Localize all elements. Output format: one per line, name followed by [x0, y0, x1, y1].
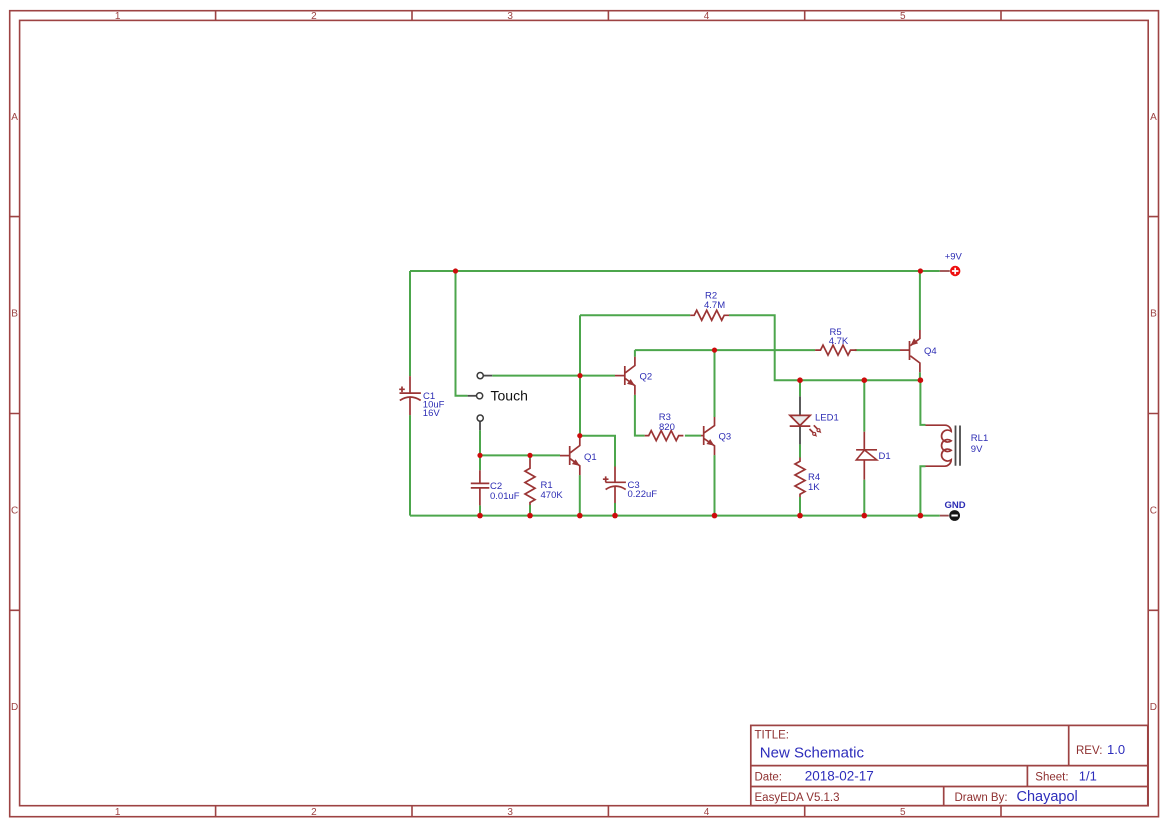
- diode D1: [856, 432, 891, 480]
- svg-text:470K: 470K: [541, 490, 564, 501]
- svg-text:2: 2: [311, 11, 317, 22]
- junction node Q1 base / C2: [477, 453, 482, 458]
- svg-text:1: 1: [115, 11, 121, 22]
- wire R1 stubs: [529, 455, 531, 515]
- resistor R5: [815, 327, 857, 355]
- wire Q4 emitter up: [919, 271, 921, 330]
- junction node ground rail / R4: [797, 513, 803, 519]
- junction node D1 branch: [862, 377, 868, 383]
- wire C2 bottom: [479, 505, 481, 515]
- junction node top rail / touch branch: [453, 268, 458, 273]
- svg-text:Date:: Date:: [755, 772, 783, 784]
- power +9V: [940, 252, 963, 276]
- svg-text:A: A: [11, 112, 18, 123]
- wire LED1 to R4: [799, 444, 801, 457]
- wire Q2 collector up: [634, 350, 636, 357]
- wire Q1 collector node to C3: [580, 436, 615, 467]
- svg-text:D1: D1: [879, 451, 891, 462]
- svg-text:820: 820: [659, 422, 675, 433]
- junction node ground rail / Q1 emitter: [577, 513, 583, 519]
- junction node Q4 collector / relay: [918, 377, 924, 383]
- svg-text:REV:: REV:: [1076, 745, 1102, 757]
- wire Q3 collector up: [714, 350, 716, 417]
- wire left column top: [409, 271, 411, 376]
- wire D1 bottom: [863, 480, 865, 516]
- svg-text:3: 3: [507, 807, 513, 818]
- junction node ground rail / Q3 emitter: [712, 513, 718, 519]
- svg-text:2018-02-17: 2018-02-17: [805, 769, 874, 784]
- junction node Q3 collector / R5 wire: [712, 348, 717, 353]
- svg-text:B: B: [11, 309, 18, 320]
- svg-text:16V: 16V: [423, 408, 441, 419]
- svg-text:4: 4: [704, 11, 710, 22]
- wire Q3 emitter down: [714, 455, 716, 515]
- wire C3 bottom: [614, 503, 616, 516]
- svg-text:TITLE:: TITLE:: [755, 730, 790, 742]
- wire LED1 top: [799, 380, 801, 396]
- wire base node to Q1: [480, 454, 560, 456]
- wire Q2 emitter to R3: [635, 395, 645, 436]
- svg-text:B: B: [1150, 309, 1157, 320]
- wire Q2 collector rail to R5: [635, 349, 815, 351]
- wire relay bottom: [920, 466, 925, 515]
- CIRCUIT: [399, 252, 988, 521]
- svg-text:GND: GND: [945, 500, 966, 511]
- svg-text:4.7M: 4.7M: [704, 300, 725, 311]
- junction node ground rail / C3: [612, 513, 618, 519]
- svg-text:LED1: LED1: [815, 413, 839, 424]
- TITLE BLOCK: [751, 725, 1148, 805]
- svg-text:5: 5: [900, 807, 906, 818]
- svg-text:3: 3: [507, 11, 513, 22]
- svg-text:Q3: Q3: [719, 432, 732, 443]
- svg-text:Touch: Touch: [491, 388, 528, 404]
- resistor R3: [645, 412, 684, 441]
- resistor R2: [690, 291, 729, 321]
- svg-text:C: C: [11, 506, 18, 517]
- wire R3 right: [685, 435, 701, 437]
- wire touch bottom to base node: [479, 430, 481, 470]
- svg-text:Q1: Q1: [584, 452, 597, 463]
- svg-text:RL1: RL1: [971, 433, 988, 444]
- svg-text:Drawn By:: Drawn By:: [955, 792, 1008, 804]
- wire +9V branch: [456, 271, 468, 396]
- resistor R4: [795, 458, 820, 498]
- junction node top rail / Q4 emitter: [918, 268, 923, 273]
- junction node touch wire / R2 branch: [577, 373, 582, 378]
- svg-text:EasyEDA V5.1.3: EasyEDA V5.1.3: [755, 792, 840, 804]
- svg-text:5: 5: [900, 11, 906, 22]
- svg-text:1.0: 1.0: [1107, 742, 1125, 757]
- wire Q4 collector down: [919, 372, 921, 380]
- transistor Q4: [900, 330, 937, 372]
- svg-text:9V: 9V: [971, 444, 983, 455]
- svg-text:+9V: +9V: [945, 252, 963, 263]
- svg-text:2: 2: [311, 807, 317, 818]
- wire D1 top: [863, 380, 865, 432]
- svg-text:4.7K: 4.7K: [829, 336, 849, 347]
- svg-text:1/1: 1/1: [1079, 769, 1097, 784]
- svg-text:A: A: [1150, 112, 1157, 123]
- svg-text:New Schematic: New Schematic: [760, 745, 865, 762]
- wire touch top to Q2 base: [492, 375, 615, 377]
- svg-text:0.22uF: 0.22uF: [628, 489, 658, 500]
- wire top rail: [410, 270, 940, 272]
- transistor Q2: [615, 357, 652, 395]
- touch plate switch: [468, 373, 528, 431]
- ground GND: [940, 500, 966, 521]
- wire bottom rail: [410, 515, 940, 517]
- junction node ground rail / D1: [862, 513, 868, 519]
- capacitor C1: [399, 376, 444, 419]
- wire R2 right to LED rail: [729, 315, 920, 380]
- capacitor C2: [471, 470, 520, 505]
- junction node Q1 collector / C3 wire: [577, 433, 582, 438]
- wire R4 bottom: [799, 497, 801, 516]
- transistor Q3: [701, 417, 731, 455]
- svg-text:Q2: Q2: [640, 372, 653, 383]
- svg-text:D: D: [11, 702, 18, 713]
- svg-text:1: 1: [115, 807, 121, 818]
- junction node ground rail / R1: [527, 513, 533, 519]
- junction node ground rail / C2: [477, 513, 483, 519]
- wire R5 right to Q4 base: [855, 349, 900, 351]
- wire R2 left horizontal: [580, 314, 690, 316]
- svg-text:0.01uF: 0.01uF: [490, 491, 520, 502]
- svg-text:C: C: [1150, 506, 1157, 517]
- junction node Q1 base / R1: [527, 453, 532, 458]
- wire relay top: [920, 380, 925, 425]
- svg-text:D: D: [1150, 702, 1157, 713]
- svg-text:4: 4: [704, 807, 710, 818]
- junction node ground rail / relay: [918, 513, 924, 519]
- junction node LED1 branch: [797, 377, 803, 383]
- svg-text:1K: 1K: [808, 482, 820, 493]
- relay RL1: [926, 425, 989, 466]
- svg-text:Sheet:: Sheet:: [1035, 772, 1068, 784]
- wire R2 left vertical: [579, 315, 581, 435]
- svg-text:Q4: Q4: [924, 346, 937, 357]
- resistor R1: [525, 459, 563, 505]
- wire Q1 emitter down: [579, 475, 581, 515]
- transistor Q1: [560, 437, 597, 475]
- wire left column bottom: [409, 415, 411, 515]
- svg-text:Chayapol: Chayapol: [1017, 789, 1078, 805]
- capacitor C3: [603, 467, 657, 504]
- LED LED1: [790, 396, 839, 444]
